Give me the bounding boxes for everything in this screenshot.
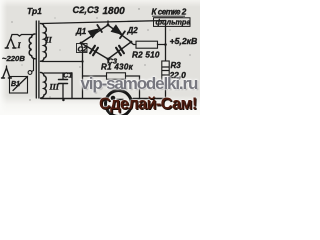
svg-text:I: I (17, 41, 22, 50)
svg-text:~220В: ~220В (2, 54, 25, 63)
svg-text:С1: С1 (63, 71, 73, 80)
svg-text:1800: 1800 (103, 6, 126, 17)
svg-text:С2: С2 (78, 45, 88, 54)
svg-text:К сетке 2: К сетке 2 (152, 8, 187, 17)
svg-text:R1 430к: R1 430к (101, 62, 134, 71)
svg-text:R2 510: R2 510 (132, 51, 160, 60)
svg-text:Д1: Д1 (75, 27, 87, 36)
svg-text:III: III (49, 83, 60, 92)
svg-text:II: II (45, 36, 53, 45)
svg-text:Тр1: Тр1 (27, 6, 42, 16)
svg-text:фильтра: фильтра (156, 18, 191, 27)
svg-text:С2,С3: С2,С3 (73, 5, 100, 15)
svg-text:Д2: Д2 (127, 26, 139, 35)
svg-text:В1: В1 (11, 81, 20, 88)
svg-text:+5,2кВ: +5,2кВ (170, 36, 198, 46)
svg-text:R3: R3 (171, 61, 182, 70)
